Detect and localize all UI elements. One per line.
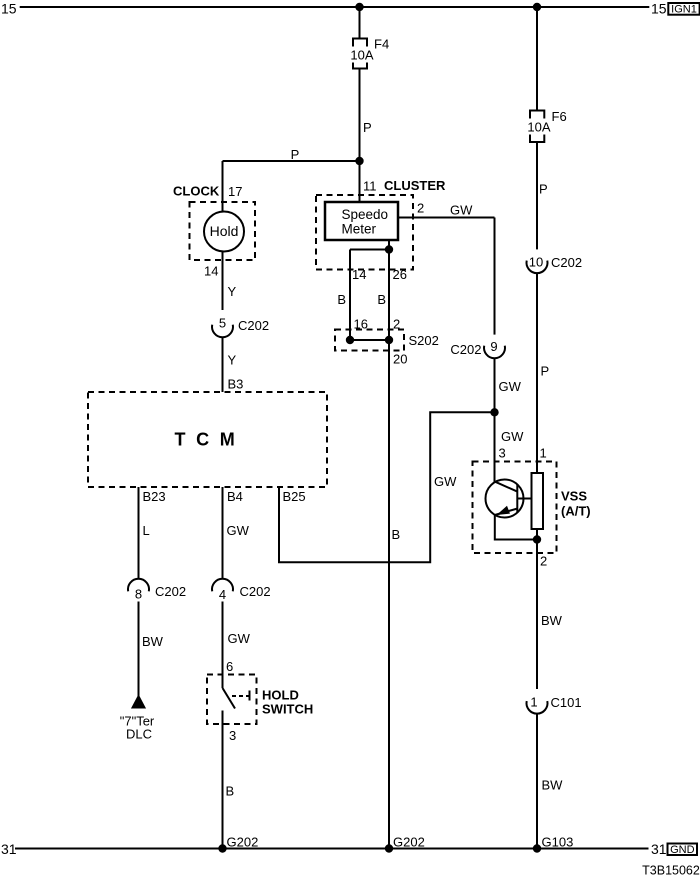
svg-text:5: 5 [219, 316, 226, 331]
wire: VSS pin 2 down [536, 540, 538, 690]
transistor emitter arrow [497, 506, 511, 515]
svg-text:GW: GW [434, 474, 457, 489]
svg-text:GW: GW [499, 379, 522, 394]
wire: TCM B23 drop [138, 487, 140, 580]
cluster dashed box [316, 195, 413, 270]
svg-text:Hold: Hold [210, 223, 239, 239]
svg-text:10A: 10A [350, 48, 373, 63]
svg-text:26: 26 [393, 267, 407, 282]
svg-text:CLUSTER: CLUSTER [384, 178, 446, 193]
svg-text:DLC: DLC [126, 727, 152, 742]
wire: GW branch to TCM B25 [279, 412, 495, 562]
svg-text:P: P [541, 364, 550, 379]
transistor emitter diagonal [495, 509, 518, 516]
wire: bottom ground rail 31 [15, 848, 649, 850]
wire: speedo bottom to junction [388, 240, 390, 250]
clock symbol circle Hold [204, 212, 244, 252]
wire: GW down to C202-9 [494, 218, 496, 335]
svg-text:B4: B4 [227, 489, 243, 504]
svg-text:GND: GND [670, 844, 695, 856]
svg-text:31: 31 [651, 841, 667, 857]
wire: C101-1 to G103 [536, 713, 538, 848]
junction dot G202 right [385, 844, 393, 852]
junction dot rail F4 [355, 3, 363, 11]
svg-text:15: 15 [1, 0, 17, 16]
svg-text:T C M: T C M [175, 430, 238, 450]
wire: TCM B4 drop [222, 487, 224, 580]
wire: junction branch left [350, 249, 389, 251]
VSS sensor resistor body [532, 473, 544, 529]
wire: C202-5 to TCM B3 [222, 337, 224, 392]
svg-text:B: B [392, 527, 401, 542]
svg-text:BW: BW [541, 613, 563, 628]
junction dot S202 pin 16 [346, 336, 354, 344]
connector C101 pin 1 [527, 701, 548, 714]
fuse F6 [530, 111, 544, 143]
svg-text:B23: B23 [143, 489, 166, 504]
wire: C202-10 to VSS pin 1 [536, 273, 538, 473]
wire: cluster pin 26 drop [388, 250, 390, 341]
wire: F4 to P junction [359, 69, 361, 162]
svg-text:GW: GW [227, 523, 250, 538]
svg-text:B3: B3 [228, 377, 244, 392]
svg-text:(A/T): (A/T) [561, 504, 591, 519]
svg-text:F4: F4 [374, 37, 389, 52]
wire: cluster pin 14 drop [349, 250, 351, 341]
svg-text:Y: Y [228, 353, 237, 368]
junction dot P branch [355, 157, 363, 165]
svg-text:1: 1 [530, 695, 537, 710]
svg-text:17: 17 [228, 184, 242, 199]
svg-text:GW: GW [450, 203, 473, 218]
wire: hold switch pin 3 to ground [222, 711, 224, 849]
svg-text:B25: B25 [283, 489, 306, 504]
transistor collector diagonal [495, 482, 518, 492]
connector C202 pin 8 [128, 579, 149, 592]
svg-text:HOLD: HOLD [262, 688, 299, 703]
wire: emitter to junction [495, 514, 537, 540]
svg-text:15: 15 [651, 0, 667, 16]
speedo meter box [325, 202, 398, 240]
svg-text:B: B [226, 784, 235, 799]
svg-text:C202: C202 [240, 584, 271, 599]
junction dot S202 pin 2 [385, 336, 393, 344]
connector C202 pin 10 [527, 261, 548, 274]
hold switch dashed box [207, 675, 257, 725]
svg-text:C101: C101 [551, 695, 582, 710]
svg-text:C202: C202 [155, 584, 186, 599]
svg-text:3: 3 [229, 728, 236, 743]
svg-text:1: 1 [540, 446, 547, 461]
junction dot G103 [533, 844, 541, 852]
svg-text:P: P [291, 147, 300, 162]
connector C202 pin 5 [212, 325, 233, 338]
svg-text:S202: S202 [409, 333, 439, 348]
svg-text:IGN1: IGN1 [671, 4, 697, 16]
wire: P junction to speedo pin 11 [359, 161, 361, 202]
wire: F6 to C202-10 [536, 142, 538, 249]
transistor base bar [516, 484, 518, 512]
hold switch actuator dashed link [232, 695, 250, 697]
svg-text:T3B15062: T3B15062 [642, 863, 700, 877]
svg-text:G202: G202 [393, 835, 425, 850]
svg-text:4: 4 [219, 587, 226, 602]
wire: GW junction down to VSS pin 3 [494, 412, 496, 482]
svg-text:Meter: Meter [342, 221, 377, 236]
wire: F4 drop from rail [359, 7, 361, 39]
svg-text:20: 20 [393, 352, 407, 367]
svg-text:C202: C202 [551, 255, 582, 270]
wire: resistor bottom to junction [536, 529, 538, 540]
transistor Q VSS circle [486, 480, 524, 518]
svg-text:14: 14 [204, 264, 218, 279]
fuse F4 [353, 39, 367, 69]
svg-text:BW: BW [142, 634, 164, 649]
junction dot speedo bottom [385, 245, 393, 253]
svg-text:3: 3 [499, 446, 506, 461]
svg-text:GW: GW [501, 429, 524, 444]
wire: speedo pin 2 GW [398, 217, 495, 219]
svg-text:P: P [363, 120, 372, 135]
svg-text:8: 8 [135, 587, 142, 602]
wire: clock pin 14 down [222, 251, 224, 311]
wire: P branch to clock [223, 160, 360, 162]
junction dot GW branch [490, 408, 498, 416]
wire: S202 internal [350, 339, 389, 341]
wire: S202 pin 20 B wire down to ground [388, 340, 390, 849]
VSS dashed box [473, 462, 557, 554]
hold switch actuator tick [249, 691, 251, 701]
clock dashed box [190, 202, 256, 260]
svg-text:CLOCK: CLOCK [173, 184, 220, 199]
svg-text:31: 31 [1, 841, 17, 857]
svg-text:10: 10 [529, 255, 543, 270]
svg-text:11: 11 [363, 179, 377, 194]
svg-text:14: 14 [352, 267, 366, 282]
wire: C202-4 to hold switch pin 6 [222, 602, 224, 689]
svg-text:10A: 10A [527, 120, 550, 135]
DLC terminal triangle [133, 696, 145, 707]
GND net box [668, 844, 698, 856]
connector C202 pin 9 [484, 346, 505, 359]
svg-text:SWITCH: SWITCH [262, 702, 313, 717]
wire: F6 drop from rail [536, 7, 538, 111]
wire: clock drop [222, 161, 224, 212]
hold switch contact arm [223, 688, 236, 709]
svg-text:2: 2 [417, 201, 424, 216]
wire: C202-8 to DLC [138, 602, 140, 697]
svg-text:F6: F6 [552, 109, 567, 124]
transistor base lead [518, 498, 532, 500]
svg-text:B: B [377, 292, 386, 307]
wire: top supply rail 15 [20, 6, 650, 8]
svg-text:C202: C202 [238, 318, 269, 333]
svg-text:BW: BW [542, 778, 564, 793]
junction dot VSS internal [533, 535, 541, 543]
svg-text:Speedo: Speedo [342, 207, 389, 222]
svg-text:G202: G202 [227, 835, 259, 850]
svg-text:VSS: VSS [561, 489, 587, 504]
svg-text:2: 2 [393, 317, 400, 332]
splice S202 dashed box [335, 330, 404, 351]
svg-text:6: 6 [226, 659, 233, 674]
junction dot rail F6 [533, 3, 541, 11]
svg-text:L: L [143, 523, 150, 538]
svg-text:C202: C202 [450, 342, 481, 357]
junction dot G202 left [218, 844, 226, 852]
svg-text:B: B [337, 292, 346, 307]
IGN1 net box [668, 3, 699, 15]
wire: C202-9 to GW junction [494, 358, 496, 412]
connector C202 pin 4 [212, 579, 233, 592]
svg-text:G103: G103 [542, 835, 574, 850]
svg-text:9: 9 [490, 339, 497, 354]
TCM dashed box [88, 392, 327, 487]
svg-text:Y: Y [228, 284, 237, 299]
svg-text:16: 16 [354, 317, 368, 332]
svg-text:2: 2 [540, 554, 547, 569]
svg-text:GW: GW [228, 631, 251, 646]
svg-text:P: P [539, 182, 548, 197]
